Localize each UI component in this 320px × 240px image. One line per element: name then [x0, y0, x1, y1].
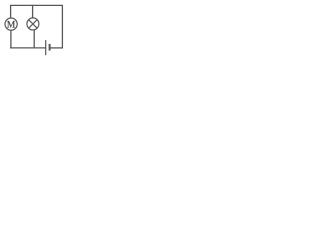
wire middle branch lower lead [33, 30, 35, 49]
motor U1 [5, 18, 17, 30]
wire middle branch upper lead [32, 5, 34, 18]
wire top [11, 4, 63, 6]
wire bottom-right (battery right lead) [50, 47, 63, 49]
lamp L1 [27, 18, 39, 30]
wire right [61, 5, 63, 49]
wire bottom-left (battery left lead) [10, 47, 46, 49]
wire left branch lower lead [10, 30, 12, 49]
battery B1 short plate [49, 44, 51, 51]
svg-text:M: M [7, 20, 16, 30]
wire left branch upper lead [10, 5, 12, 18]
battery B1 long plate [45, 40, 47, 55]
